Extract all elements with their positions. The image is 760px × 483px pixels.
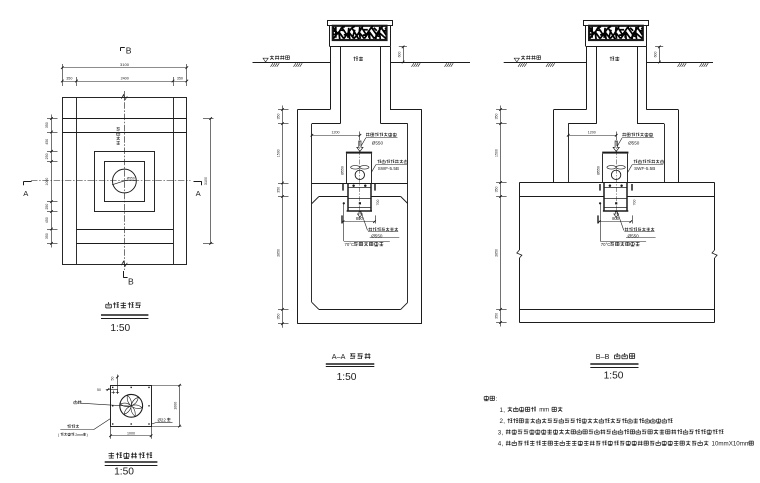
fan unit top plate bbox=[346, 152, 372, 154]
svg-text:450: 450 bbox=[45, 139, 49, 145]
outlet flow arrow (hollow, small) bbox=[358, 212, 363, 217]
ground line left bbox=[504, 62, 587, 64]
svg-text:800: 800 bbox=[612, 216, 620, 221]
fan unit casing bbox=[602, 154, 604, 183]
duct below floor: walls bbox=[347, 183, 349, 211]
fan impeller ellipses bbox=[607, 166, 616, 170]
svg-text:1:50: 1:50 bbox=[604, 371, 624, 382]
fan unit casing bbox=[346, 154, 348, 183]
fan blade petals bbox=[120, 395, 142, 416]
section marker B bottom bbox=[123, 271, 134, 287]
existing-grade symbol + label (CJK) bbox=[263, 58, 268, 62]
A-A lower chamber bottom edge bbox=[319, 309, 401, 311]
fan motor circle bbox=[355, 170, 364, 179]
A-A fan room floor bbox=[312, 183, 408, 185]
label: axial outlet (bottom, CJK) bbox=[617, 212, 624, 231]
damper axis square bbox=[359, 202, 361, 204]
B-B tunnel left wall with break bbox=[519, 183, 521, 251]
label: 70C motorized fire damper (CJK) bbox=[600, 203, 602, 241]
svg-text:2850: 2850 bbox=[494, 249, 498, 257]
svg-text:250: 250 bbox=[45, 153, 49, 159]
notes block bbox=[484, 396, 753, 448]
vent cap bottom sill bbox=[586, 46, 647, 48]
section marker B top bbox=[121, 46, 132, 56]
neck inner walls bbox=[340, 46, 342, 123]
svg-text:1:50: 1:50 bbox=[337, 372, 357, 383]
svg-text:450: 450 bbox=[45, 217, 49, 223]
ground line right bbox=[646, 62, 713, 64]
label: low-noise mixed-flow fan SWF-5.5B (CJK) bbox=[377, 160, 407, 164]
svg-text:350: 350 bbox=[494, 313, 498, 319]
A-A section view bbox=[253, 21, 471, 328]
svg-text:,: , bbox=[502, 429, 504, 436]
svg-text:Ø550: Ø550 bbox=[127, 176, 135, 180]
label: axial outlet (top right, CJK) bbox=[366, 133, 396, 137]
svg-text:,: , bbox=[503, 407, 505, 414]
svg-text:50: 50 bbox=[111, 377, 115, 381]
existing-grade symbol + label (CJK) bbox=[514, 58, 519, 62]
svg-text:350: 350 bbox=[494, 187, 498, 193]
inlet flow arrow (hollow) bbox=[357, 141, 363, 151]
svg-text:SWF-5.5B: SWF-5.5B bbox=[378, 166, 399, 171]
plan inner wall lines bbox=[76, 98, 78, 265]
plan left dimension chain bbox=[45, 115, 57, 248]
flange square plate bbox=[111, 386, 152, 427]
plan top dimension 3100 bbox=[61, 62, 188, 86]
flange bolts bbox=[353, 185, 355, 187]
neck outer walls bbox=[330, 46, 332, 109]
duct bottom flange (thick) bbox=[603, 210, 628, 212]
dim 1200 fan position bbox=[312, 135, 360, 137]
svg-text:1500: 1500 bbox=[494, 149, 498, 157]
svg-text:350: 350 bbox=[276, 114, 280, 120]
svg-text:1000: 1000 bbox=[45, 178, 49, 186]
duct flange joint lines bbox=[348, 187, 372, 189]
flange fan circle bbox=[120, 394, 143, 417]
dim 800 duct outlet bbox=[597, 215, 599, 223]
dim 800 duct outlet bbox=[341, 215, 343, 223]
A-A title + scale bbox=[326, 352, 375, 383]
ground line left bbox=[253, 62, 331, 64]
B-B chamber inner walls bbox=[568, 124, 570, 183]
damper side bolt bbox=[599, 202, 601, 204]
fan unit top plate bbox=[602, 152, 628, 154]
A-A chamber outer walls bbox=[297, 110, 299, 324]
damper axis square bbox=[615, 202, 617, 204]
svg-text:,: , bbox=[502, 441, 504, 448]
plan horizontal beam lines bottom bbox=[77, 229, 174, 231]
air duct label (CJK) bbox=[610, 57, 620, 61]
label: axial outlet (top right, CJK) bbox=[622, 133, 652, 137]
svg-text:600: 600 bbox=[654, 52, 658, 58]
svg-text:B–B: B–B bbox=[596, 352, 610, 361]
inlet flow arrow (hollow) bbox=[613, 141, 619, 151]
svg-text:700: 700 bbox=[376, 200, 380, 206]
plan top dimension chain 350/2400/350 bbox=[61, 77, 188, 86]
duct flange side marks bbox=[599, 184, 601, 191]
A-A chamber bottom bbox=[298, 323, 422, 325]
A-A chamber inner walls bbox=[311, 124, 313, 303]
svg-text:): ) bbox=[87, 433, 88, 437]
duct centerline bbox=[616, 141, 618, 221]
louver grille panel (ice-ray pattern) bbox=[589, 26, 643, 40]
svg-text:Ø22: Ø22 bbox=[158, 417, 167, 422]
svg-text:Ø550: Ø550 bbox=[628, 140, 640, 145]
vertical label fan foundation (CJK) bbox=[117, 128, 120, 145]
B-B chamber ceiling bbox=[568, 123, 596, 125]
svg-text:250: 250 bbox=[45, 204, 49, 210]
label: axial outlet (bottom, CJK) bbox=[361, 212, 368, 231]
neck outer walls bbox=[586, 46, 588, 109]
svg-text:350: 350 bbox=[276, 314, 280, 320]
svg-text:350: 350 bbox=[276, 187, 280, 193]
svg-text:2mm: 2mm bbox=[75, 433, 83, 437]
svg-text:50: 50 bbox=[97, 388, 101, 392]
dim 600 cap height bbox=[659, 47, 661, 62]
vent cap top slab bbox=[584, 21, 649, 26]
duct centerline bbox=[359, 141, 361, 221]
circle label leader + text O550 bbox=[112, 180, 127, 185]
svg-text:10mmX10mm: 10mmX10mm bbox=[712, 440, 751, 447]
svg-text:,: , bbox=[503, 418, 505, 425]
fan foundation outer square bbox=[95, 152, 155, 212]
damper side bolt bbox=[343, 202, 345, 204]
plan horizontal centerline bbox=[31, 180, 191, 182]
air duct label (CJK) bbox=[353, 57, 363, 61]
label fan (CJK) + leader bbox=[74, 400, 82, 404]
ground line right bbox=[390, 62, 470, 64]
svg-text:3100: 3100 bbox=[204, 177, 208, 185]
dim 1200 fan position bbox=[568, 135, 616, 137]
vent cap bottom sill bbox=[329, 46, 390, 48]
vent cap top slab bbox=[328, 21, 393, 26]
B-B tunnel roof slab lines bbox=[519, 182, 714, 184]
section marker A left bbox=[23, 182, 31, 199]
svg-text:B: B bbox=[126, 46, 132, 56]
B-B chamber outer walls bbox=[553, 110, 555, 183]
duct flange joint lines bbox=[604, 187, 628, 189]
svg-text:1000: 1000 bbox=[173, 402, 177, 410]
B-B tunnel right wall with break bbox=[714, 183, 716, 251]
svg-text:350: 350 bbox=[45, 233, 49, 239]
break mark top bbox=[121, 95, 127, 100]
svg-text:1200: 1200 bbox=[588, 130, 596, 134]
A-A floor slab bottom / lower chamber top bbox=[319, 196, 348, 198]
svg-text:A–A: A–A bbox=[332, 352, 346, 361]
dim 1000 right bbox=[151, 385, 181, 387]
B-B section view bbox=[494, 21, 717, 327]
A-A lower chamber chamfers bbox=[312, 197, 319, 204]
outlet flow arrow (hollow, small) bbox=[614, 212, 619, 217]
fan opening circle bbox=[113, 169, 137, 193]
B-B chamber step bbox=[554, 109, 587, 111]
svg-text:350: 350 bbox=[494, 114, 498, 120]
svg-text:1500: 1500 bbox=[276, 149, 280, 157]
svg-text:2850: 2850 bbox=[276, 249, 280, 257]
duct below floor: walls bbox=[603, 183, 605, 211]
svg-text:2400: 2400 bbox=[121, 77, 129, 81]
fan motor circle bbox=[611, 170, 620, 179]
plan view: shaft plan outline bbox=[31, 91, 191, 270]
svg-text:800: 800 bbox=[356, 216, 364, 221]
dim 600 cap height bbox=[403, 47, 405, 62]
svg-text:Ø550: Ø550 bbox=[372, 140, 384, 145]
plan right dimension 3100 vertical bbox=[203, 117, 214, 245]
bolt hole locating dims 50/50 bbox=[117, 375, 119, 394]
svg-text:70°C: 70°C bbox=[345, 242, 355, 247]
svg-text:3100: 3100 bbox=[120, 62, 130, 67]
flange bolts bbox=[609, 185, 611, 187]
svg-text:1:50: 1:50 bbox=[110, 323, 130, 334]
duct flange side marks bbox=[342, 184, 344, 191]
svg-text:350: 350 bbox=[177, 77, 183, 81]
svg-text:1000: 1000 bbox=[127, 431, 135, 435]
louver grille panel (ice-ray pattern) bbox=[333, 26, 387, 40]
B-B left dimension chain bbox=[500, 106, 502, 327]
svg-text:Ø550: Ø550 bbox=[340, 166, 344, 175]
svg-text:1:50: 1:50 bbox=[114, 467, 134, 478]
plan horizontal beam lines top bbox=[62, 118, 187, 120]
flange title + scale bbox=[105, 453, 158, 478]
svg-text:350: 350 bbox=[45, 122, 49, 128]
break mark bottom bbox=[121, 261, 127, 266]
fan impeller ellipses bbox=[351, 166, 360, 170]
flange plate detail bbox=[58, 375, 182, 439]
B-B title + scale bbox=[590, 352, 638, 382]
label: low-noise mixed-flow fan SWF-5.5B (CJK) bbox=[634, 160, 664, 164]
svg-text:mm: mm bbox=[539, 408, 549, 414]
B-B tunnel floor slab lines bbox=[519, 309, 714, 311]
label: 70C motorized fire damper (CJK) bbox=[343, 203, 345, 241]
ground hatch marks bbox=[271, 63, 454, 67]
dim 1000 bottom bbox=[110, 426, 112, 439]
section marker A right bbox=[194, 182, 202, 199]
fan foundation inner square bbox=[105, 162, 145, 202]
neck inner walls bbox=[596, 46, 598, 123]
label flange plate (CJK) + leader bbox=[67, 425, 79, 428]
plan title (CJK) with double underline and scale bbox=[101, 302, 148, 334]
svg-text:B: B bbox=[128, 277, 134, 287]
svg-text:SWF-5.5B: SWF-5.5B bbox=[634, 166, 655, 171]
A-A chamber ceiling bbox=[312, 123, 340, 125]
svg-text:Ø550: Ø550 bbox=[597, 166, 601, 175]
svg-text:600: 600 bbox=[397, 52, 401, 58]
svg-text:350: 350 bbox=[66, 77, 72, 81]
svg-text:1200: 1200 bbox=[332, 130, 340, 134]
vent cap side walls bbox=[329, 25, 331, 46]
svg-text:70°C: 70°C bbox=[601, 242, 611, 247]
vent cap side walls bbox=[585, 25, 587, 46]
A-A left dimension chain 350/1500/350/2850/350 bbox=[282, 106, 284, 328]
A-A chamber step bbox=[298, 109, 331, 111]
plan vertical centerline bbox=[124, 91, 126, 270]
svg-text:700: 700 bbox=[632, 200, 636, 206]
flange bolt holes bbox=[112, 387, 113, 388]
duct bottom flange (thick) bbox=[347, 210, 372, 212]
ground hatch marks bbox=[518, 63, 708, 67]
